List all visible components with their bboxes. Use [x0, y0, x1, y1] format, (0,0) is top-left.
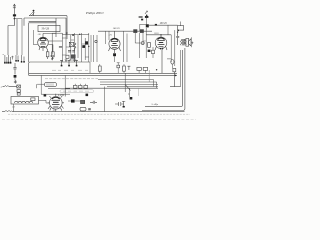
mains transformer box	[11, 97, 39, 105]
wire x24 down	[23, 18, 25, 26]
capacitor C2	[13, 63, 16, 75]
nested box outer	[142, 48, 185, 111]
wire antenna down	[8, 16, 14, 25]
svg-text:EBL1: EBL1	[153, 33, 159, 35]
cap to ground mid	[128, 88, 130, 97]
coil L2 squiggle	[74, 43, 76, 50]
box right	[81, 100, 85, 103]
cap on left column	[59, 46, 62, 47]
resistor R4	[148, 43, 151, 48]
wires right verticals	[171, 30, 175, 66]
faint footer row	[2, 119, 196, 121]
faint vertical	[137, 88, 139, 96]
small circle node	[95, 40, 97, 42]
wire coil box to V4	[39, 100, 50, 103]
wire V1 right	[48, 41, 63, 59]
wire y18	[24, 17, 66, 19]
wire x52.2 with ground	[51, 33, 55, 60]
dashed bottom line	[8, 113, 190, 115]
blob top right	[146, 25, 149, 28]
wire left vertical x8	[7, 26, 9, 56]
top stubs	[66, 32, 68, 34]
tuning gang section verticals	[62, 33, 88, 62]
faint vertical x149	[148, 70, 150, 82]
svg-text:N9: N9	[52, 110, 55, 112]
tube V3	[155, 35, 167, 74]
wire V1 left	[34, 30, 38, 45]
wire y86.6	[170, 86, 181, 88]
cap pair	[90, 101, 97, 104]
electrolytic C9	[115, 101, 125, 108]
coil box L1	[38, 25, 60, 31]
blob left	[44, 95, 47, 97]
wire top right	[149, 24, 178, 26]
wire top of gang	[62, 34, 88, 36]
top bus line y31.2	[98, 30, 152, 32]
bus line 6	[107, 86, 158, 88]
svg-text:160 29: 160 29	[113, 27, 121, 30]
bus line 3	[98, 79, 154, 81]
speaker magnet stubs	[191, 42, 193, 45]
rounded box lower	[80, 107, 86, 111]
cap T-bar	[127, 66, 130, 70]
wire vertical x17	[16, 19, 18, 55]
trimmer T2	[68, 60, 71, 66]
wire x90	[89, 62, 91, 73]
antenna A1	[13, 4, 16, 15]
svg-text:160 29: 160 29	[160, 22, 168, 25]
wire top V3	[146, 34, 171, 36]
IF area verticals	[91, 31, 109, 62]
tube V4 output	[48, 94, 64, 112]
ground arrows	[65, 58, 76, 61]
labels under V3	[152, 50, 155, 53]
dot at line end	[156, 69, 157, 70]
vertical to blob	[40, 75, 42, 94]
fuse box X	[17, 85, 21, 88]
label dashes row	[52, 69, 88, 71]
components mid-bottom row	[73, 84, 87, 89]
box D2	[71, 55, 75, 59]
wire top V4	[41, 89, 70, 97]
wire x168 down	[167, 25, 169, 35]
svg-text:504 2B: 504 2B	[42, 27, 50, 30]
capacitor C3 blob	[14, 75, 17, 78]
resistor R2	[52, 52, 55, 57]
wire y15.7	[29, 15, 67, 17]
diode circle	[141, 42, 144, 45]
tube V2	[109, 31, 121, 53]
wire verticals IF	[139, 28, 146, 58]
capacitor C4 bars	[68, 51, 75, 52]
chassis box corner	[29, 62, 90, 75]
speaker frame vertical	[180, 50, 182, 87]
box D1	[66, 55, 69, 58]
trimmer T3	[69, 60, 78, 66]
IF transformer cores	[133, 29, 144, 33]
left switchbank contacts m	[4, 55, 25, 64]
bottom bus with switch	[2, 111, 5, 113]
wire x28.7 down to chassis box	[28, 23, 30, 62]
nested box inner	[145, 50, 183, 107]
svg-text:m4: m4	[12, 106, 15, 109]
bus line 5	[100, 84, 158, 86]
resistor R5 right	[173, 68, 176, 71]
AM input cluster	[139, 11, 149, 31]
svg-text:S=40μ: S=40μ	[152, 103, 159, 106]
svg-text:Philips 208 U: Philips 208 U	[85, 11, 104, 15]
capacitor C7 blob	[148, 50, 151, 52]
resistor R7	[123, 66, 126, 71]
blob right of V4	[71, 99, 75, 102]
wire y33.3	[43, 32, 62, 34]
output transformer T-out	[181, 39, 187, 45]
T + box element	[117, 63, 120, 66]
choke pill	[45, 82, 57, 86]
switch diagonal on lines	[125, 85, 130, 91]
resistor R6	[98, 66, 101, 71]
junction dot	[88, 46, 89, 47]
blob on strip	[86, 94, 89, 97]
label strip	[60, 90, 94, 93]
capacitor C6 blob under V2	[113, 53, 116, 56]
blob component	[85, 41, 88, 44]
wire vertical x22	[14, 19, 22, 55]
wire to plus	[14, 78, 16, 80]
trimmer T1	[60, 60, 63, 66]
bus line 3a faint	[45, 78, 98, 80]
resistor R1	[46, 52, 49, 57]
small box under	[17, 90, 20, 93]
bus line 2	[29, 74, 177, 76]
capacitor C8 top	[176, 32, 179, 45]
tube V1	[38, 34, 49, 52]
bus stub verticals	[65, 73, 157, 111]
small boxes row	[137, 67, 141, 70]
bus line 1	[29, 72, 177, 74]
tuning links	[62, 38, 88, 57]
wire double pair to coil	[29, 22, 56, 23]
switch S1 wave-change	[30, 10, 35, 16]
stub coil box to bus	[13, 104, 15, 112]
bus line 4	[100, 81, 157, 83]
svg-text:AK2: AK2	[37, 33, 42, 36]
small box 43a	[178, 26, 184, 30]
speaker LS	[186, 37, 191, 47]
resistor R3 blob	[82, 45, 85, 48]
stub wires component row	[100, 64, 146, 73]
node a1 junction dot	[14, 18, 16, 20]
corner wire to pill	[37, 84, 45, 88]
svg-text:AF3: AF3	[108, 33, 113, 36]
capacitor C1	[13, 14, 16, 16]
wire x67 down	[66, 16, 68, 39]
mains plus symbol	[14, 80, 17, 84]
wire x66 down	[65, 18, 67, 35]
padder box P1	[69, 42, 73, 46]
wire y88.2	[65, 87, 158, 89]
mains switch wire	[3, 85, 17, 87]
dial lamp LA	[171, 60, 174, 65]
wire x56 down	[55, 18, 57, 37]
wires V2 right	[123, 31, 127, 62]
tube V3 pin wedges	[160, 48, 164, 50]
blob on wire	[155, 24, 157, 26]
svg-text:0,1: 0,1	[144, 41, 147, 43]
